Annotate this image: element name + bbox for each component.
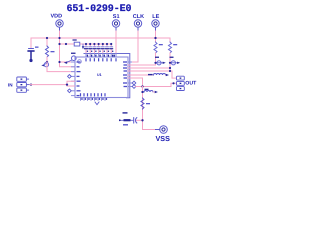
wire VSS bus above IC [84, 54, 130, 98]
node IN pin2 [30, 83, 32, 85]
wire VDD rail y38 [31, 37, 170, 39]
svg-text:VDD: VDD [51, 13, 63, 19]
svg-text:651-0299-E0: 651-0299-E0 [67, 4, 132, 15]
IC right pin stubs [128, 62, 132, 87]
node cap VSS line [141, 119, 143, 121]
inductor L1 [148, 74, 169, 77]
resistor R2 pullup A [154, 38, 163, 53]
svg-text:CLK: CLK [133, 14, 144, 20]
power port S1 [112, 14, 119, 31]
IC top pin numbers [87, 55, 115, 57]
power port VDD [51, 13, 64, 31]
node rail junctions [46, 37, 48, 39]
IC bottom pin stubs [81, 98, 106, 101]
wire S1 drop [115, 31, 117, 54]
power port LE [152, 14, 160, 31]
resistor R1 [46, 38, 55, 62]
node out mid [172, 82, 174, 84]
diamond start run86 [132, 85, 136, 89]
svg-text:OUT: OUT [185, 81, 197, 87]
wire jog to pin6 [67, 85, 75, 86]
IC right pin names [123, 61, 127, 87]
wire pin65 to TPA [128, 64, 156, 66]
IC bottom pin numbers [81, 98, 107, 100]
no-connect diamond left pin4 [68, 75, 72, 79]
test point TP2 [64, 53, 76, 64]
node VDD pin1 [58, 61, 60, 63]
wire CLK drop [129, 31, 139, 62]
wire run y86.5 [136, 83, 177, 86]
svg-text:LE: LE [152, 14, 159, 20]
resistor R4 [141, 98, 150, 109]
wire pin78 drop [128, 78, 143, 87]
capacitor row value texts [87, 51, 114, 52]
wire TPB vertical [169, 53, 171, 71]
node coil2 branch [141, 91, 143, 93]
wire VDD drop [59, 31, 61, 44]
test point TP3 [154, 57, 165, 65]
svg-text:U1: U1 [97, 73, 102, 77]
ferrite bead FB1 [73, 39, 85, 49]
wire LE drop [155, 31, 157, 38]
wire bypass rail y44 [60, 43, 112, 45]
wire R1 to pin3 [47, 62, 75, 72]
resistor R3 pullup B [169, 38, 178, 53]
wire drop to VSS [143, 87, 156, 130]
wire pin68 to TPB [128, 67, 170, 69]
node IN jog [66, 83, 68, 85]
test point TP1 [41, 62, 48, 66]
bypass capacitor row C2-C8 [86, 44, 111, 54]
no-connect diamond left pin7 [68, 89, 72, 93]
ground pad arrow [95, 102, 99, 105]
IC bottom pin names [80, 93, 106, 96]
wire pin71 to OUT top [128, 71, 177, 78]
wire TPA vertical [155, 53, 157, 65]
test point TP4 [169, 57, 180, 65]
inductor L2 [144, 89, 158, 94]
node R1 bottom [46, 61, 48, 63]
IC top pin stubs [86, 54, 116, 58]
wire VDD branch to pins 1-2 [60, 31, 75, 67]
svg-text:VSS: VSS [156, 134, 171, 142]
capacitor C9 [119, 112, 143, 125]
power port CLK [133, 14, 144, 31]
no-connect diamond right pin 83 [132, 81, 136, 85]
power port VSS [156, 126, 171, 143]
connector J1 IN [8, 77, 30, 92]
IC U1 QFP body [75, 57, 128, 98]
IC top pin names [85, 58, 116, 61]
IC left pin stubs [72, 62, 76, 96]
connector J2 OUT [177, 76, 198, 90]
wire IN to jog [30, 84, 67, 86]
wire jog to pin5 [67, 81, 75, 84]
wire pin75 to L1 [128, 74, 154, 76]
node rail cap junctions [85, 43, 112, 45]
node LE rail [154, 37, 156, 39]
capacitor C1 [28, 38, 38, 62]
node rail R2 [154, 37, 156, 39]
IC left pin names [77, 61, 81, 96]
svg-text:IN: IN [8, 82, 13, 87]
svg-text:S1: S1 [113, 14, 120, 20]
node drop run [141, 85, 143, 87]
